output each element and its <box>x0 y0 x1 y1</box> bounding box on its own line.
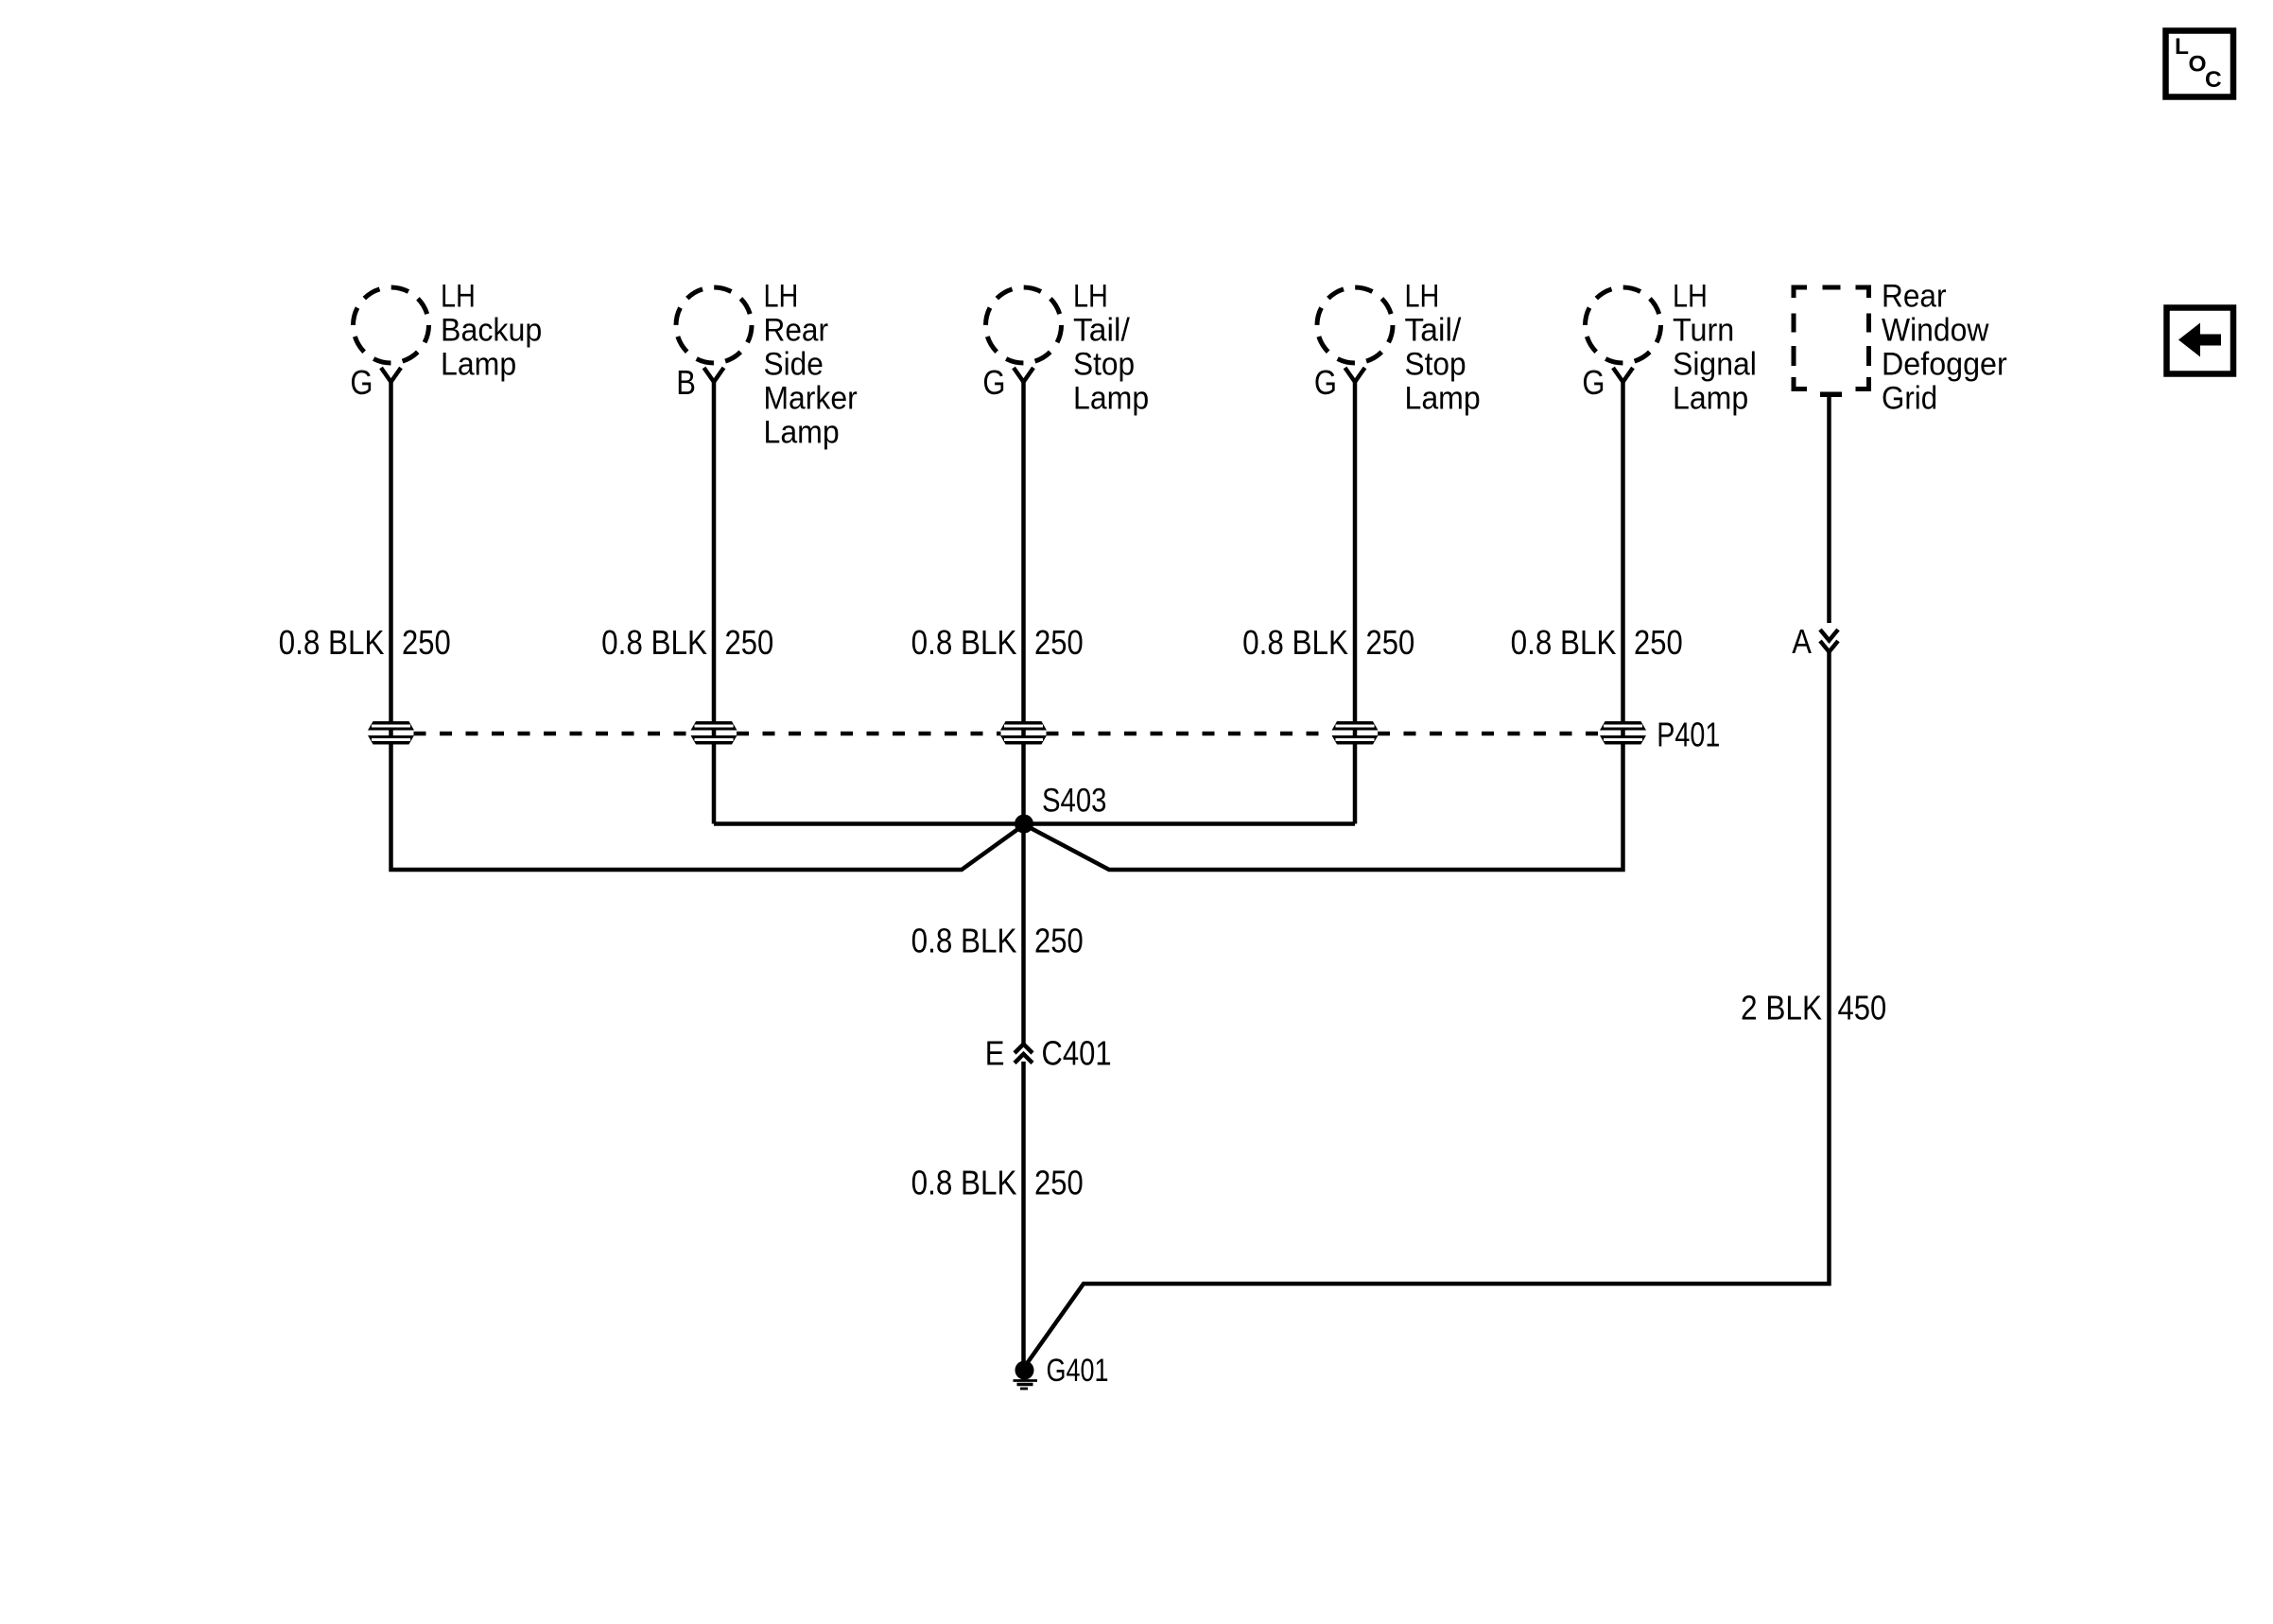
svg-text:LH: LH <box>1073 279 1108 315</box>
wire label 0.8 BLK 250 on wire 1 <box>279 623 451 662</box>
svg-text:250: 250 <box>1034 922 1084 960</box>
svg-text:Tail/: Tail/ <box>1405 313 1462 349</box>
svg-text:0.8 BLK: 0.8 BLK <box>1511 623 1617 662</box>
wire label 0.8 BLK 250 on wire 4 <box>1242 623 1414 662</box>
dashed harness line P401 <box>414 732 1601 736</box>
svg-text:G401: G401 <box>1047 1353 1109 1389</box>
terminal V at lamp 5 <box>1613 368 1633 382</box>
label: LH Rear Side Marker Lamp <box>764 279 858 451</box>
label: LH Tail/ Stop Lamp <box>1405 279 1481 417</box>
svg-text:G: G <box>1582 363 1605 402</box>
svg-text:E: E <box>985 1034 1005 1073</box>
wire label 0.8 BLK 250 on wire 2 <box>601 623 773 662</box>
svg-text:2 BLK: 2 BLK <box>1741 988 1822 1027</box>
svg-text:0.8 BLK: 0.8 BLK <box>911 1164 1017 1202</box>
svg-text:0.8 BLK: 0.8 BLK <box>1242 623 1348 662</box>
lamp LH Tail/ Stop Lamp (dashed circle) <box>1317 287 1393 363</box>
svg-text:250: 250 <box>725 623 774 662</box>
svg-text:250: 250 <box>1366 623 1415 662</box>
terminal V at lamp 1 <box>381 368 401 382</box>
LOC page marker box <box>2166 31 2234 97</box>
svg-text:Turn: Turn <box>1673 313 1734 349</box>
connector C401 chevrons <box>1015 1045 1032 1063</box>
lamp LH Tail/ Stop Lamp (dashed circle) <box>986 287 1062 363</box>
label: Rear Window Defogger Grid <box>1882 279 2007 417</box>
svg-text:L: L <box>2175 34 2189 60</box>
svg-text:0.8 BLK: 0.8 BLK <box>911 623 1017 662</box>
wire label 0.8 BLK 250 on wire 3 <box>911 623 1084 662</box>
P401 pass-through connector on wire 4 <box>1332 721 1379 745</box>
P401 pass-through connector on wire 2 <box>691 721 737 745</box>
svg-text:C: C <box>2205 67 2222 93</box>
svg-text:A: A <box>1792 622 1812 661</box>
wire: rear side marker lamp ground down to bus <box>712 382 717 824</box>
svg-text:Lamp: Lamp <box>1073 381 1149 417</box>
ground G401 dot <box>1015 1361 1034 1380</box>
svg-text:Tail/: Tail/ <box>1073 313 1130 349</box>
svg-text:LH: LH <box>441 279 476 315</box>
wire: defogger 2 BLK 450 down, left, diagonal to G401 <box>1827 394 1831 623</box>
left-arrow navigation box <box>2167 308 2234 374</box>
svg-text:0.8 BLK: 0.8 BLK <box>279 623 385 662</box>
defogger bottom tab <box>1820 392 1842 398</box>
svg-text:LH: LH <box>764 279 799 315</box>
wire: S403 to C401 to G401 <box>1021 1062 1026 1366</box>
svg-text:Side: Side <box>764 347 824 383</box>
label: LH Tail/ Stop Lamp <box>1073 279 1149 417</box>
terminal V at lamp 4 <box>1345 368 1365 382</box>
label: LH Backup Lamp <box>441 279 542 383</box>
svg-text:Backup: Backup <box>441 313 542 349</box>
svg-text:S403: S403 <box>1042 782 1107 820</box>
connector chevrons at A <box>1820 630 1838 652</box>
wire label 0.8 BLK 250 on wire 5 <box>1511 623 1683 662</box>
wire label 0.8 BLK 250 (S403 to C401) <box>911 922 1084 960</box>
svg-text:Defogger: Defogger <box>1882 347 2007 383</box>
svg-text:Rear: Rear <box>1882 279 1947 315</box>
svg-text:P401: P401 <box>1657 716 1720 754</box>
lamp LH Backup Lamp (dashed circle) <box>354 287 429 363</box>
svg-text:Window: Window <box>1882 313 1989 349</box>
svg-text:G: G <box>350 363 373 402</box>
rear window defogger grid (dashed box) <box>1792 285 1872 391</box>
svg-text:Lamp: Lamp <box>441 347 516 383</box>
P401 pass-through connector on wire 3 <box>1000 721 1047 745</box>
svg-text:0.8 BLK: 0.8 BLK <box>601 623 707 662</box>
svg-text:250: 250 <box>1034 623 1084 662</box>
svg-text:C401: C401 <box>1042 1034 1112 1073</box>
splice S403 dot <box>1015 815 1033 834</box>
lamp LH Turn Signal Lamp (dashed circle) <box>1586 287 1661 363</box>
svg-text:Rear: Rear <box>764 313 829 349</box>
svg-text:Marker: Marker <box>764 381 858 417</box>
terminal V at lamp 3 <box>1014 368 1033 382</box>
svg-text:G: G <box>982 363 1005 402</box>
wire label 2 BLK 450 <box>1741 988 1886 1027</box>
svg-text:450: 450 <box>1838 988 1887 1027</box>
wire: turn signal lamp ground, down then left to S403 <box>1025 382 1623 870</box>
wire: tail/stop lamp ground down through S403 to C401 <box>1021 382 1026 1044</box>
svg-text:Stop: Stop <box>1073 347 1135 383</box>
wire: tail/stop lamp 2 ground down to bus <box>1353 382 1358 824</box>
svg-text:G: G <box>1314 363 1337 402</box>
svg-text:Stop: Stop <box>1405 347 1466 383</box>
svg-text:0.8 BLK: 0.8 BLK <box>911 922 1017 960</box>
svg-text:O: O <box>2189 52 2207 78</box>
svg-text:250: 250 <box>402 623 451 662</box>
svg-text:LH: LH <box>1673 279 1708 315</box>
svg-text:Lamp: Lamp <box>764 415 840 451</box>
svg-text:B: B <box>676 363 696 402</box>
terminal V at lamp 2 <box>704 368 724 382</box>
svg-text:Lamp: Lamp <box>1673 381 1748 417</box>
label: LH Turn Signal Lamp <box>1673 279 1757 417</box>
lamp LH Rear Side Marker Lamp (dashed circle) <box>676 287 752 363</box>
svg-text:250: 250 <box>1634 623 1683 662</box>
ground symbol <box>1014 1379 1038 1382</box>
svg-text:Grid: Grid <box>1882 381 1937 417</box>
svg-text:Lamp: Lamp <box>1405 381 1481 417</box>
wire: LH backup lamp ground, down then right to S403 <box>391 382 1025 870</box>
wire: horizontal bus through S403 <box>714 821 1355 826</box>
svg-text:Signal: Signal <box>1673 347 1757 383</box>
svg-text:250: 250 <box>1034 1164 1084 1202</box>
P401 pass-through connector on wire 5 <box>1600 721 1646 745</box>
P401 pass-through connector on wire 1 <box>368 721 414 745</box>
svg-text:LH: LH <box>1405 279 1440 315</box>
wire label 0.8 BLK 250 (C401 to G401) <box>911 1164 1084 1202</box>
